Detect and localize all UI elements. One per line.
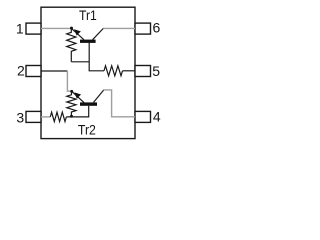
pin 3 box [26,111,41,122]
svg-text:2: 2 [17,63,25,79]
svg-text:Tr2: Tr2 [78,122,96,138]
node dot Tr2 emitter [70,90,73,93]
svg-text:Tr1: Tr1 [79,7,97,23]
transistor Tr1 collector line [93,29,104,40]
svg-text:4: 4 [153,109,161,125]
pin 6 box [135,23,151,34]
wire R2a bottom to base line [71,61,89,63]
transistor Tr2 base bar [80,102,97,105]
pin 5 box [135,66,151,77]
resistor R2a (base-emitter of Tr1) [67,28,76,61]
transistor Tr1 base bar [80,40,96,43]
pin 4 box [135,111,151,122]
resistor R1b (series base resistor from pin3) [50,112,66,121]
svg-text:1: 1 [16,21,24,37]
transistor Tr2 base lead [88,106,90,117]
wire R1b to base junction and Tr2 base [66,116,89,118]
svg-text:6: 6 [153,20,161,36]
transistor Tr1 emitter line [71,28,84,39]
pin 1 box [26,23,41,34]
transistor Tr2 emitter line [72,91,84,102]
pin 2 box [26,66,41,77]
wire pin1 to emitter node (gray) [41,27,71,29]
wire Tr2 collector to pin4 (gray) [104,90,136,117]
transistor Tr1 base lead [89,43,104,71]
resistor R1a (series base resistor to pin5) [104,66,123,76]
transistor Tr2 emitter arrow [74,92,81,98]
wire pin2 vertical down to Tr2 emitter node (gray) [67,71,71,91]
transistor Tr1 emitter arrow [74,29,81,35]
wire Tr1 collector rail to pin6 (gray) [103,27,135,29]
node dot Tr1 emitter [70,27,73,30]
wire pin2 horizontal (black) [41,70,67,72]
wire pin3 stub (gray) [41,116,50,118]
transistor Tr2 collector line [94,90,104,103]
svg-text:5: 5 [152,63,160,79]
resistor R2b (base-emitter of Tr2) [67,91,76,116]
wire R1a to pin5 [123,70,136,72]
package body outline [41,7,135,138]
node dot Tr2 base junction [70,115,73,118]
svg-text:3: 3 [16,110,24,126]
